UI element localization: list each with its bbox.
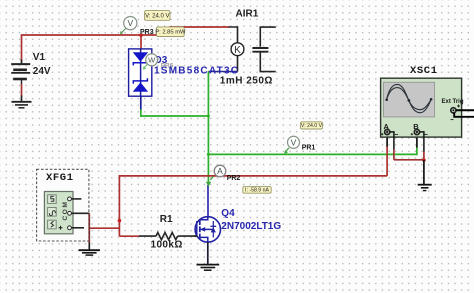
wire: B- jog xyxy=(420,132,424,160)
wire: A- jog xyxy=(390,132,424,160)
battery V1 xyxy=(11,60,30,85)
capacitor branch bottom lead xyxy=(260,52,275,72)
readout box I -58.9nA xyxy=(243,187,271,194)
svg-text:24V: 24V xyxy=(33,66,51,77)
ground (XFG1) xyxy=(79,250,101,255)
svg-text:V1: V1 xyxy=(33,52,46,63)
svg-text:P: 2.85 mW: P: 2.85 mW xyxy=(155,30,186,36)
XFG1 waveform buttons xyxy=(48,195,57,229)
readout box V 24.0V top xyxy=(145,11,170,21)
probe PR3 circle xyxy=(124,17,137,30)
svg-text:COM: COM xyxy=(62,201,69,221)
wire: scope minus to ground xyxy=(423,160,425,185)
probe PR6 circle xyxy=(146,54,158,66)
probe PR1 arrow xyxy=(284,148,289,154)
probe PR2 circle xyxy=(214,165,226,177)
svg-text:XFG1: XFG1 xyxy=(46,172,74,184)
svg-text:PR3: PR3 xyxy=(140,29,154,36)
terminal A xyxy=(385,129,390,134)
svg-text:K: K xyxy=(234,45,241,56)
svg-text:V: V xyxy=(291,137,297,147)
svg-text:2N7002LT1G: 2N7002LT1G xyxy=(221,221,281,232)
resistor R1 xyxy=(139,233,198,240)
function generator XFG1 dashed box xyxy=(37,169,89,241)
svg-text:XSC1: XSC1 xyxy=(410,65,438,77)
AIR1 left leg top xyxy=(229,27,238,43)
wire: drain node to scope B (green) xyxy=(208,147,417,154)
ground (battery) xyxy=(12,102,32,108)
ground (scope) xyxy=(418,185,432,191)
svg-text:A: A xyxy=(217,166,223,176)
wire: D3 bottom lead xyxy=(140,96,142,110)
readout box V 24.0V right xyxy=(301,122,323,129)
AIR1 left leg bottom xyxy=(237,56,239,72)
svg-text:AIR1: AIR1 xyxy=(236,8,259,19)
capacitor branch of AIR1 top lead xyxy=(260,27,276,47)
wire: to R1 xyxy=(119,235,139,237)
probe PR6 arrow xyxy=(143,64,148,70)
node junction at y116 xyxy=(207,115,210,118)
svg-text:V: V xyxy=(127,18,133,28)
wire: drain vertical (green) xyxy=(207,72,209,185)
wire: A+ lead xyxy=(386,134,388,176)
wire: junction to D3 top xyxy=(140,35,142,50)
oscilloscope XSC1 xyxy=(381,78,462,137)
XFG1 plus label xyxy=(59,226,63,230)
svg-text:100kΩ: 100kΩ xyxy=(151,239,183,250)
wire: AIR1 bottom to drain node xyxy=(208,71,237,73)
wire: source to ground xyxy=(207,242,209,265)
svg-text:I: -58.9 nA: I: -58.9 nA xyxy=(245,188,269,194)
wire: XFG COM to ground xyxy=(88,213,90,250)
wire: gate net top rail (red) xyxy=(119,176,387,236)
wire: drain lead navy xyxy=(207,185,209,217)
probe PR1 circle xyxy=(288,136,300,148)
ext trig terminal xyxy=(451,105,460,120)
svg-text:V: 24.0 V: V: 24.0 V xyxy=(301,123,323,129)
wire: rail step up to AIR1 xyxy=(140,27,229,35)
node junction rail/D3 xyxy=(139,33,143,37)
svg-text:1SMB58CAT3C: 1SMB58CAT3C xyxy=(154,66,239,77)
wire: ext trig stubs xyxy=(456,109,474,111)
node junction at y154 xyxy=(207,153,210,156)
wire: battery top to rail xyxy=(22,35,141,61)
node junction scope minus xyxy=(422,158,426,162)
diode D3 bottom element xyxy=(133,78,147,91)
svg-text:V: 24.0 V: V: 24.0 V xyxy=(145,14,169,20)
svg-text:Ext Trig: Ext Trig xyxy=(442,99,464,105)
wire: battery minus to ground xyxy=(21,84,23,102)
probe PR3 arrow xyxy=(120,27,127,34)
probe PR2 arrow xyxy=(206,176,214,186)
diode D3 top element xyxy=(133,53,147,66)
capacitor plates xyxy=(252,48,268,52)
XFG1 terminals xyxy=(68,197,72,230)
terminal B xyxy=(414,129,419,134)
svg-text:R1: R1 xyxy=(160,214,173,225)
svg-text:1mH 250Ω: 1mH 250Ω xyxy=(220,76,273,87)
svg-text:W: W xyxy=(148,56,156,65)
wire: D3 to drain node (green) xyxy=(141,109,209,116)
transistor Q4 MOSFET xyxy=(195,217,220,242)
svg-text:PR1: PR1 xyxy=(302,145,316,152)
XFG1 body xyxy=(44,192,73,234)
TVS diode D3 body box xyxy=(129,49,152,96)
ground (Q4 source) xyxy=(197,265,220,271)
wire: XFG+ to vertical xyxy=(84,227,120,229)
svg-text:Q4: Q4 xyxy=(221,208,235,219)
wire: R1 to gate xyxy=(194,235,198,237)
terminal polarity marks xyxy=(381,133,428,135)
svg-text:PR2: PR2 xyxy=(227,175,241,182)
wire: scope B+ stub xyxy=(416,134,418,147)
node junction on gate net xyxy=(118,219,122,223)
wire: XFG1 terminal stubs xyxy=(72,199,90,228)
AIR1 core circle xyxy=(231,43,244,56)
readout box P 2.85mW xyxy=(155,27,186,37)
